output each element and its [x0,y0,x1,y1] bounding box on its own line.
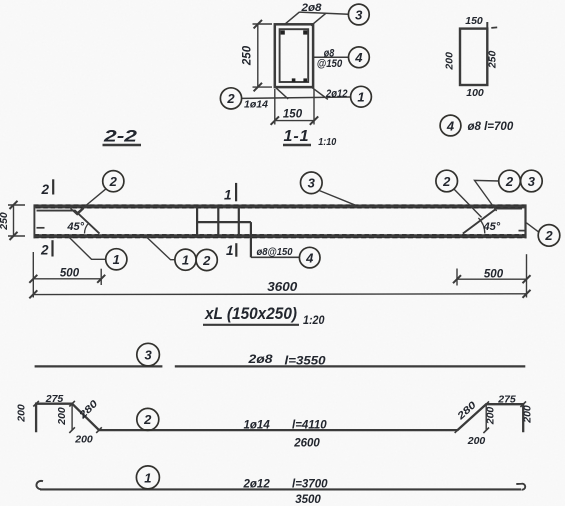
bar 1 right hook [516,484,525,490]
svg-text:200: 200 [467,435,486,447]
section mark 2 (bottom left) [40,240,53,257]
svg-text:2: 2 [109,174,118,189]
svg-text:4: 4 [354,50,363,65]
leader to circle 2 (right top) [454,189,482,218]
bar 1 schedule line [40,488,521,490]
svg-text:2ø12: 2ø12 [243,479,271,491]
dim 150 (section bottom) [271,89,319,125]
svg-text:45°: 45° [483,221,501,233]
svg-text:3: 3 [528,174,536,189]
svg-text:2: 2 [442,174,451,189]
svg-text:2ø8: 2ø8 [300,2,322,14]
svg-text:250: 250 [487,50,499,69]
circle 2 (bar schedule) [137,408,159,430]
svg-text:2: 2 [40,243,49,258]
svg-text:500: 500 [484,269,504,281]
circle 1 (section) [351,86,372,107]
stirrup detail outline [460,29,487,85]
leader ø8@150 to circle 4 [314,56,349,58]
svg-text:2: 2 [505,174,514,189]
section 1-1 concrete outline [275,24,313,87]
45 deg arc (right) [478,218,484,234]
leader to circle 1 (left) [67,235,106,259]
circle 4 (elevation) [299,247,320,268]
section mark 1 (top) [224,183,236,202]
svg-text:3: 3 [355,7,363,22]
beam right end line [524,205,526,239]
dim 3600 [29,290,530,299]
leader to circle 2 (right end) [526,223,538,232]
svg-text:200: 200 [56,407,68,426]
svg-text:xL (150x250): xL (150x250) [204,304,297,323]
stirrup in section [280,29,309,82]
svg-text:l=3700: l=3700 [292,479,328,491]
svg-text:2600: 2600 [293,437,320,449]
leader 2ø12 to circle 1 [242,88,351,100]
circle 2 (right pair) [499,170,521,192]
svg-text:3500: 3500 [295,494,321,506]
circle 3 (top elevation) [301,172,323,194]
svg-text:3600: 3600 [267,280,297,294]
bar 3 schedule line [35,365,526,367]
svg-text:275: 275 [45,393,64,405]
bar 2 bend extension (left) [71,404,73,430]
svg-text:200: 200 [15,404,27,423]
circle 1 (bar schedule) [136,466,159,489]
title 1-1 [283,128,336,148]
svg-text:1ø14: 1ø14 [244,99,268,111]
svg-text:ø8 l=700: ø8 l=700 [468,121,514,133]
svg-text:2: 2 [544,228,553,243]
svg-text:l=4110: l=4110 [292,419,327,431]
svg-text:200: 200 [444,52,456,71]
svg-text:275: 275 [497,393,516,405]
bar 2 schedule shape [36,404,523,433]
svg-text:1: 1 [357,90,364,105]
bar 1 hook mark (right) [519,230,526,232]
bar 1 left hook [36,481,43,489]
svg-text:2: 2 [40,182,49,197]
stirrup hook dash [491,26,497,29]
svg-text:1:20: 1:20 [303,313,325,327]
svg-text:1-1: 1-1 [283,128,309,145]
svg-text:1ø14: 1ø14 [244,419,271,431]
svg-text:@150: @150 [317,58,343,70]
circle 2 (right end) [538,225,560,247]
stirrup hook stub [486,22,488,30]
section mark 2 (top left) [40,179,53,197]
svg-text:1: 1 [144,470,151,485]
svg-text:l=3550: l=3550 [285,356,327,368]
circle 2 (section) [220,88,241,109]
leader 2ø8 to circle 3 [284,12,348,26]
bar 2 bent end (left) [37,211,100,234]
beam bottom chord (hatched band) [34,234,527,238]
circle 1 (middle) [175,249,196,270]
beam left end line [33,205,35,239]
circle 3 (bar schedule) [137,343,160,366]
dim 250 (section left) [253,20,273,91]
svg-text:1: 1 [224,187,232,202]
section mark 1 (bottom) [226,243,236,258]
title 2-2 [103,127,142,146]
dim 250 (elevation left) [8,201,25,240]
svg-text:250: 250 [0,212,10,231]
dim 500 (right) [453,254,531,297]
svg-text:2-2: 2-2 [103,127,138,146]
leader arrow notch (left bend) [71,208,84,214]
bar 2 bent end (right) [463,209,522,234]
svg-text:200: 200 [521,405,533,424]
svg-text:4: 4 [305,250,314,265]
leader from circle 3 [319,190,356,205]
circle 3 (right pair) [521,170,543,192]
svg-text:4: 4 [446,118,455,133]
svg-text:150: 150 [465,15,483,27]
svg-text:250: 250 [242,45,254,66]
leader to circle 2 (left) [78,189,107,213]
svg-text:2ø12: 2ø12 [325,88,347,100]
svg-text:1:10: 1:10 [318,136,336,148]
leader to circles 1,2 (middle) [145,236,175,260]
svg-text:2: 2 [202,253,211,268]
circle 2 (left elevation) [103,171,124,192]
svg-text:1: 1 [182,253,189,268]
circle 4 (section) [349,47,370,68]
bar 2 bend extension (right) [485,404,487,430]
rebar dots in section [281,30,308,82]
drawing title xL(150x250) [203,304,325,327]
dim 500 (left) [29,252,105,298]
circle 1 (left elevation) [106,249,127,270]
svg-text:1: 1 [226,243,234,258]
svg-text:45°: 45° [66,221,84,233]
stirrup ladder mid rail [197,221,251,223]
svg-text:1: 1 [113,252,120,267]
svg-text:ø8@150: ø8@150 [257,247,293,258]
circle 4 (stirrup mark) [440,115,461,136]
svg-text:3: 3 [308,176,316,191]
svg-text:200: 200 [484,407,496,426]
circle 3 (section) [348,4,369,25]
bar 2 dimension tick slashes [33,401,526,433]
bar 1 hook mark (left) [37,227,45,229]
circle 2 (middle) [196,249,217,270]
beam top chord (hatched band) [34,204,527,208]
svg-text:2ø8: 2ø8 [247,354,273,366]
svg-text:100: 100 [466,87,484,99]
leader to circle 4 (elevation) [251,256,300,258]
45 deg arc (left) [85,223,89,234]
stirrup ladder verticals [197,206,251,257]
svg-text:200: 200 [74,433,93,445]
leader to circles 2,3 (right) [475,180,499,211]
svg-text:3: 3 [144,348,152,363]
svg-text:150: 150 [283,108,303,120]
circle 2 (right top) [436,170,458,192]
svg-text:500: 500 [60,268,80,280]
svg-text:2: 2 [226,91,235,106]
svg-text:2: 2 [143,412,152,427]
